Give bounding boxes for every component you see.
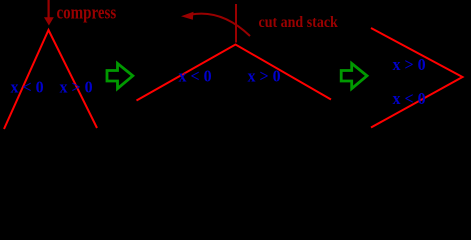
svg-text:x < 0: x < 0 xyxy=(11,77,44,97)
svg-text:x < 0: x < 0 xyxy=(179,66,212,86)
svg-text:x > 0: x > 0 xyxy=(393,54,426,74)
svg-text:x > 0: x > 0 xyxy=(248,66,281,86)
green arrow 2 xyxy=(341,63,367,88)
cut and stack curved arrow xyxy=(191,14,250,36)
compress arrow (down) xyxy=(44,0,54,26)
right stacked curve (sideways V) xyxy=(371,28,463,128)
svg-text:cut and stack: cut and stack xyxy=(259,14,339,31)
svg-text:x < 0: x < 0 xyxy=(393,88,426,108)
left tent map curve xyxy=(4,30,97,129)
svg-text:compress: compress xyxy=(57,2,117,23)
middle flattened tent curve xyxy=(137,45,332,101)
svg-text:x > 0: x > 0 xyxy=(60,77,93,97)
cut line (vertical) xyxy=(235,4,237,43)
green arrow 1 xyxy=(107,63,133,88)
